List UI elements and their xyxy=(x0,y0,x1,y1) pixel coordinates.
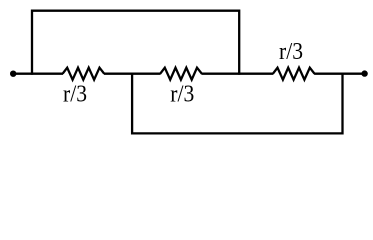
resistor R1 xyxy=(63,68,105,80)
wire: main horizontal, R3 to right terminal xyxy=(314,73,365,75)
wire: bottom parallel branch xyxy=(132,73,342,134)
svg-text:r/3: r/3 xyxy=(279,38,303,65)
wire: main horizontal, R2 to R3 xyxy=(201,73,273,75)
svg-text:r/3: r/3 xyxy=(63,81,87,108)
wire: main horizontal, left terminal to R1 xyxy=(13,73,63,75)
wire: top parallel branch xyxy=(32,11,239,75)
svg-text:r/3: r/3 xyxy=(170,81,194,108)
resistor R2 xyxy=(160,68,202,80)
left terminal node xyxy=(10,71,16,77)
right terminal node xyxy=(361,70,367,76)
resistor R3 xyxy=(273,68,315,80)
wire: main horizontal, R1 to R2 xyxy=(104,73,161,75)
